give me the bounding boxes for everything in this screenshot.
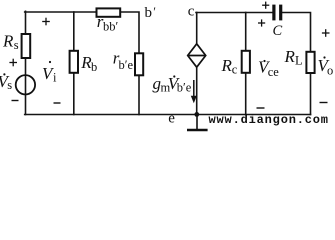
wire Rb branch top [73,12,75,51]
resistor r_bb' [97,8,121,16]
minus sign of V_s [12,100,19,102]
plus sign of capacitor C [262,2,269,9]
capacitor C plates [274,5,281,21]
svg-text:s: s [14,38,19,52]
wire Rc branch bottom [245,73,247,115]
minus sign of V_ce [257,107,265,109]
svg-text:ce: ce [268,65,280,79]
wire Rs bottom to Vs circle and through to bottom rail [25,58,27,115]
wire Rc branch top [245,13,247,51]
svg-text:C: C [273,23,283,39]
resistor R_L [306,52,314,73]
wire r_b'e to bottom rail [138,75,140,114]
wire diamond bottom to node e junction [196,67,198,114]
svg-text:i: i [53,71,57,85]
resistor r_b'e [135,53,143,75]
label R_L [284,47,303,68]
svg-text:′: ′ [153,5,156,19]
controlled current source diamond g_m V_b'e [188,44,206,67]
svg-text:b′e: b′e [177,81,192,95]
current direction arrow [191,80,197,103]
svg-text:e: e [168,111,175,127]
resistor R_b [70,51,78,73]
node e junction dot [194,112,199,117]
label R_c [221,56,238,77]
label V_s with dot [0,72,12,92]
label g_m V_b'e with dot [153,74,192,95]
wire top-right rail c to capacitor [196,12,272,14]
wire bottom rail (node e) [25,114,311,116]
svg-text:o: o [327,64,333,78]
wire r_bb' to node b' corner [120,12,139,53]
svg-text:b: b [91,60,97,74]
plus sign of V_i [42,18,50,26]
svg-text:s: s [7,78,12,92]
wire top-left rail b node to r_bb' [25,11,97,13]
resistor R_s [22,34,31,58]
minus sign of V_o [320,102,328,104]
resistor R_c [242,51,250,73]
plus sign of V_ce [258,19,265,26]
svg-text:R: R [221,56,233,75]
label V_i with dot [42,61,57,85]
ground [187,115,208,131]
svg-text:c: c [232,63,238,77]
wire capacitor to RL corner [282,13,310,52]
label r_bb' [97,12,119,33]
label r_b'e [113,49,134,72]
minus sign of V_i [54,102,61,104]
wire Rb branch bottom [73,73,75,115]
svg-text:R: R [2,32,14,51]
plus sign of V_s [9,59,17,67]
svg-text:L: L [295,54,303,68]
source V_s circle [16,75,35,94]
wire node c to diamond top [196,13,198,44]
plus sign of V_o [322,29,330,37]
svg-text:bb′: bb′ [103,19,119,33]
svg-text:www.diangon.com: www.diangon.com [209,113,329,127]
label V_ce with dot [258,58,279,80]
label V_o with dot [318,56,334,78]
svg-text:b: b [145,5,153,21]
svg-text:R: R [284,47,296,66]
svg-text:b′e: b′e [119,58,134,72]
wire RL bottom [310,73,312,115]
wire left column top (Rs to rail) [25,11,27,34]
svg-text:c: c [188,4,195,20]
label R_b [80,53,97,74]
label R_s [2,32,19,53]
